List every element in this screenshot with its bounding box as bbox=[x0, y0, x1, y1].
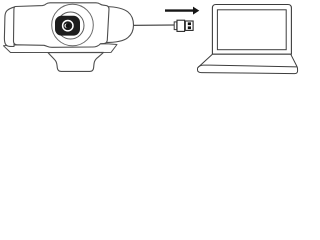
arrow bbox=[165, 7, 199, 15]
webcam main body bbox=[14, 3, 110, 48]
usb contact hole upper bbox=[188, 22, 191, 25]
lens white ring bbox=[63, 21, 73, 31]
lens black pupil bbox=[66, 24, 70, 28]
lens outer circle bbox=[52, 4, 94, 46]
lens middle circle bbox=[57, 12, 84, 39]
webcam right end cap bbox=[105, 7, 134, 43]
laptop deck front edge bbox=[198, 65, 297, 67]
webcam left end cap bbox=[4, 7, 15, 47]
lens white crescent bbox=[65, 24, 69, 28]
laptop screen outer bbox=[212, 5, 291, 55]
webcam mount bar bbox=[4, 44, 118, 53]
usb plug body bbox=[177, 20, 185, 31]
usb contact hole lower bbox=[188, 26, 191, 29]
webcam clip bbox=[48, 52, 104, 71]
usb strain relief bbox=[174, 22, 177, 30]
laptop screen inner bbox=[217, 10, 286, 50]
webcam cable bbox=[133, 24, 175, 26]
lens plate bbox=[56, 16, 80, 35]
laptop base silhouette bbox=[198, 54, 298, 73]
usb metal shell bbox=[185, 21, 193, 30]
